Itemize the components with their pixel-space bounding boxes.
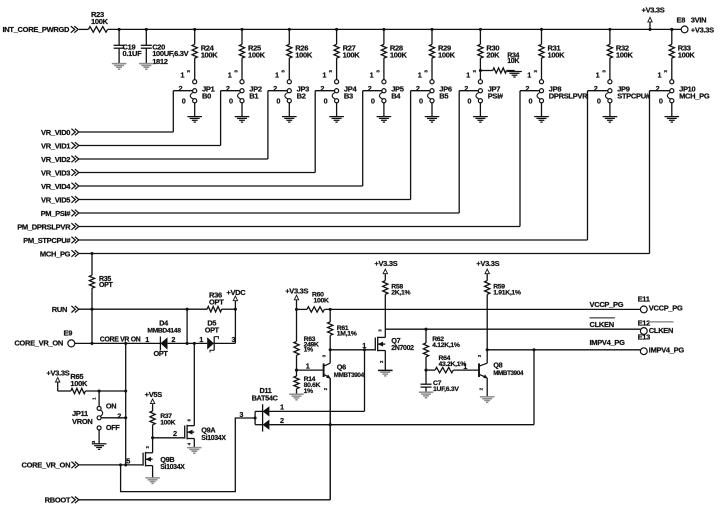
resistor R59 [485,281,521,350]
wire JP9 pin2 to PM_STPCPU# [79,91,608,240]
jumper JP4 B3 [320,70,357,117]
wire Q7 gate [330,341,374,350]
ground JP6 [425,117,440,123]
transistor Q7 2N7002 [375,329,415,371]
svg-text:Q9B: Q9B [160,455,174,464]
svg-text:100K: 100K [160,420,175,427]
resistor R25 [239,29,265,79]
transistor Q9A Si1034X [185,343,227,447]
node bus junction R25 [240,28,243,31]
svg-text:1UF,6.3V: 1UF,6.3V [433,386,459,393]
node bus junction R28 [382,28,385,31]
jumper JP2 B1 [226,70,262,117]
wire RUN line [79,308,207,310]
node bus junction R29 [430,28,433,31]
node R63 R14 Q6 junction [295,369,298,372]
svg-text:IMPV4_PG: IMPV4_PG [590,338,626,347]
resistor R26 [287,29,313,79]
svg-text:2K,1%: 2K,1% [391,289,410,296]
resistor R63 [294,309,319,370]
resistor R35 [89,254,113,310]
wire D4 to D5 [168,342,208,344]
wire E9 row to CORE_VR_ON lower [125,343,127,465]
capacitor C19 [114,29,143,63]
svg-text:100K: 100K [390,51,408,60]
svg-text:+V3.3S: +V3.3S [46,368,69,377]
power +V3.3S JP11 [46,368,69,391]
svg-text:0.1UF: 0.1UF [123,49,143,58]
wire JP2 pin2 to VR_VID1 [79,91,240,146]
node R62 top junction [424,328,427,331]
ground Q9A [187,448,202,454]
ground JP5 [377,117,392,123]
node E9 row R35 junction [90,342,93,345]
resistor R60 [297,292,329,313]
wire JP1 pin2 to VR_VID0 [79,91,193,132]
svg-text:1: 1 [370,71,374,80]
svg-text:2: 2 [226,84,230,93]
resistor R64 [426,355,479,373]
jumper JP11 VRON [72,401,127,443]
resistor R27 [334,29,360,79]
net label CORE VR ON [100,336,141,343]
ground R14 [289,394,304,400]
resistor R58 [383,281,411,330]
ground JP11 [92,444,107,450]
resistor R32 [607,29,633,79]
svg-text:RBOOT: RBOOT [45,496,71,505]
node bus junction R27 [335,28,338,31]
svg-text:IMPV4_PG: IMPV4_PG [649,345,685,354]
svg-text:MCH_PG: MCH_PG [40,249,71,258]
svg-text:MMBT3904: MMBT3904 [493,370,524,377]
ground R34 [507,71,522,78]
svg-text:100K: 100K [248,51,266,60]
connector VR_VID0 [41,128,79,137]
power +V3.3S R60 [285,286,308,309]
svg-text:2: 2 [525,84,529,93]
svg-text:1%: 1% [304,388,313,395]
node RUN R35 junction [90,308,93,311]
resistor R14 [294,370,321,395]
svg-text:VR_VID1: VR_VID1 [41,141,70,150]
svg-text:4.12K,1%: 4.12K,1% [432,342,460,349]
svg-text:Q9A: Q9A [201,426,216,435]
svg-text:1: 1 [466,71,470,80]
wire JP4 pin2 to VR_VID3 [79,91,335,173]
wire R37 to Q9A gate [153,429,185,438]
ground Q8 [480,397,495,403]
wire pin2 to IMPV4 node [533,350,535,425]
svg-text:100K: 100K [201,51,219,60]
wire CORE_VR_ON row [75,342,161,344]
capacitor C7 [421,370,460,393]
jumper JP8 DPRSLPVR [525,70,588,117]
svg-text:VRON: VRON [72,417,92,426]
svg-text:0: 0 [529,97,533,106]
svg-text:2: 2 [320,84,324,93]
jumper JP5 B4 [368,70,404,117]
node R60 left junction [295,308,298,311]
svg-text:B3: B3 [344,91,353,100]
svg-text:Q8: Q8 [493,361,502,370]
node R62 R64 C7 junction [424,369,427,372]
node bus junction R26 [288,28,291,31]
svg-text:0: 0 [467,97,471,106]
transistor Q8 MMBT3904 [477,350,524,397]
svg-text:E13: E13 [638,332,651,341]
wire JP5 pin2 to VR_VID4 [79,91,382,186]
jumper JP7 PSI# [464,70,504,117]
power +V3.3S R58 [374,259,397,281]
jumper JP9 STPCPU# [594,70,651,117]
svg-text:1M,1%: 1M,1% [337,331,357,338]
svg-text:+V3.3S: +V3.3S [374,259,397,268]
svg-text:OPT: OPT [99,282,114,289]
svg-text:+V3.3S: +V3.3S [476,259,499,268]
node bus junction R30 [479,28,482,31]
ground C20 [139,64,154,70]
svg-text:VR_VID5: VR_VID5 [41,195,70,204]
svg-text:2: 2 [416,84,420,93]
svg-text:2: 2 [117,411,121,420]
svg-text:0: 0 [597,97,601,106]
wire Q7 drain [378,329,386,337]
ground Q7 [378,370,393,376]
svg-text:2: 2 [368,84,372,93]
resistor R24 [192,29,218,79]
connector PM_PSI# [41,209,79,218]
node bus junction R33 [670,28,673,31]
svg-text:43.2K,1%: 43.2K,1% [439,361,467,368]
svg-text:STPCPU#: STPCPU# [617,91,651,100]
svg-text:Si1034X: Si1034X [160,464,185,471]
svg-text:3: 3 [239,410,243,419]
transistor Q9B Si1034X [143,446,185,478]
wire VCCP_PG line [324,308,640,310]
node JP7 pin1 junction [479,69,482,72]
resistor R36 [207,290,235,312]
svg-text:VR_VID4: VR_VID4 [41,182,71,191]
connector VR_VID2 [41,155,79,164]
svg-text:0: 0 [371,97,375,106]
ground JP9 [603,117,618,123]
svg-text:CLKEN: CLKEN [649,326,673,335]
svg-text:MMBD4148: MMBD4148 [147,328,181,335]
connector PM_STPCPU# [23,236,79,245]
ground JP10 [665,117,680,123]
connector E11 VCCP_PG [638,294,683,313]
node IMPV4 pin2 vertical junction [532,348,535,351]
connector E9 CORE_VR_ON [14,329,74,348]
svg-text:INT_CORE_PWRGD: INT_CORE_PWRGD [3,25,71,34]
wire RBOOT row [79,378,330,500]
svg-text:100K: 100K [678,51,696,60]
svg-text:+V3.3S: +V3.3S [641,6,664,15]
svg-text:2: 2 [656,84,660,93]
svg-text:Si1034X: Si1034X [201,435,226,442]
node bus junction R24 [193,28,196,31]
svg-text:+V5S: +V5S [145,390,163,399]
svg-text:B0: B0 [202,91,211,100]
connector E8 3VIN +V3.3S [670,16,714,35]
svg-text:CLKEN: CLKEN [590,320,614,329]
wire R35 to CORE_VR_ON [91,309,93,343]
svg-text:VCCP_PG: VCCP_PG [649,304,683,313]
node bus junction C19 [118,28,121,31]
svg-text:0: 0 [659,97,663,106]
jumper JP1 B0 [179,70,215,117]
svg-text:OFF: OFF [106,423,121,432]
svg-text:BAT54C: BAT54C [252,393,279,402]
svg-text:2: 2 [594,84,598,93]
svg-text:1: 1 [275,71,279,80]
svg-text:PM_DPRSLPVR: PM_DPRSLPVR [17,222,71,231]
diode D11 BAT54C [239,386,284,432]
svg-text:1: 1 [180,71,184,80]
svg-text:2N7002: 2N7002 [391,345,414,352]
svg-text:0: 0 [182,97,186,106]
net label VCCP_PG left [590,300,624,309]
wire D5 to +VDC corner [214,309,235,343]
svg-text:B2: B2 [297,91,306,100]
svg-text:OPT: OPT [205,326,220,335]
wire JP8 pin2 to PM_DPRSLPVR [79,91,540,227]
node D4 RUN vertical junction [186,342,189,345]
node R65 JP11 pin1 junction [98,389,101,392]
svg-text:2: 2 [171,335,175,344]
connector RUN [52,305,79,314]
svg-text:100K: 100K [70,379,88,388]
resistor R30 [478,29,500,79]
svg-text:VR_VID3: VR_VID3 [41,168,70,177]
node R59 IMPV junction [486,348,489,351]
svg-text:+V3.3S: +V3.3S [285,286,308,295]
node RUN D4 junction [186,308,189,311]
svg-text:MCH_PG: MCH_PG [679,91,710,100]
node R65 vertical junction [124,389,127,392]
ground JP2 [235,117,250,123]
node CORE_VR_ON D11 branch [119,463,122,466]
svg-text:100K: 100K [295,51,313,60]
svg-text:20K: 20K [486,51,500,60]
connector RBOOT [45,496,79,505]
svg-text:2: 2 [179,84,183,93]
svg-text:2: 2 [464,84,468,93]
svg-text:OPT: OPT [153,349,168,358]
wire Q9B drain [152,438,154,453]
wire main bus [108,28,682,30]
svg-text:2: 2 [173,429,177,438]
resistor R34 [480,52,519,73]
svg-text:VCCP_PG: VCCP_PG [590,300,624,309]
wire CORE_VR_ON lower row [79,456,143,465]
capacitor C20 [141,29,189,66]
node CORE_VR_ON JP11 vertical [124,463,127,466]
svg-text:PM_PSI#: PM_PSI# [41,209,72,218]
svg-text:100K: 100K [314,298,329,305]
node bus junction R31 [540,28,543,31]
svg-text:0: 0 [229,97,233,106]
svg-text:1: 1 [658,71,662,80]
connector INT_CORE_PWRGD [3,25,79,34]
resistor R28 [381,29,407,79]
connector PM_DPRSLPVR [17,222,79,231]
node bus junction R32 [608,28,611,31]
svg-text:0: 0 [276,97,280,106]
svg-text:E8: E8 [677,16,686,25]
ground JP1 [187,117,202,123]
node D11 pin2 RBOOT junction [329,423,332,426]
svg-text:MMBT3904: MMBT3904 [334,372,365,379]
wire JP6 pin2 to VR_VID5 [79,91,430,200]
node E9 row JP11 branch [124,342,127,345]
net label IMPV4_PG left [590,338,626,347]
svg-text:+VDC: +VDC [226,288,246,297]
svg-text:Q6: Q6 [337,363,346,372]
svg-text:1: 1 [199,335,203,344]
node R61 bottom junction [329,348,332,351]
ground JP8 [534,117,549,123]
wire CLKEN line [385,328,640,330]
svg-text:PM_STPCPU#: PM_STPCPU# [23,236,71,245]
wire JP11 pin1 stub [92,391,100,406]
svg-text:1: 1 [322,71,326,80]
svg-text:VR_VID2: VR_VID2 [41,155,70,164]
svg-text:OPT: OPT [209,297,224,306]
svg-text:CORE_VR_ON: CORE_VR_ON [14,338,63,347]
svg-text:100K: 100K [91,17,109,26]
wire RUN to D4 node [186,309,188,343]
svg-text:1: 1 [306,362,310,371]
net label CLKEN left [590,318,615,329]
node D5 Q9A drain junction [193,342,196,345]
svg-text:2: 2 [273,84,277,93]
svg-text:D4: D4 [159,319,169,328]
svg-text:100K: 100K [438,51,456,60]
connector VR_VID4 [41,182,79,191]
connector E13 IMPV4_PG [638,332,685,354]
svg-text:1: 1 [463,362,467,371]
svg-text:100K: 100K [616,51,634,60]
node D11 pin1 gate junction [363,348,366,351]
svg-text:0: 0 [419,97,423,106]
svg-text:VR_VID0: VR_VID0 [41,128,70,137]
wire D11 pin3 path [121,418,256,492]
node bus junction C20 [145,28,148,31]
svg-text:CORE_VR_ON: CORE_VR_ON [22,461,71,470]
svg-text:2: 2 [280,416,284,425]
connector VR_VID3 [41,168,79,177]
resistor R31 [539,29,565,79]
connector MCH_PG [40,249,79,258]
ground C19 [112,64,127,70]
diode D4 MMBD4148 [145,319,181,358]
power +V3.3S top [641,6,664,31]
svg-text:B1: B1 [249,91,258,100]
wire D11 pin2 line [269,424,534,426]
resistor R33 [669,29,695,79]
wire IMPV4_PG line [487,349,640,351]
svg-text:100K: 100K [343,51,361,60]
svg-text:E9: E9 [64,329,73,338]
jumper JP10 MCH_PG [656,70,710,117]
svg-text:1: 1 [596,71,600,80]
resistor R61 [328,309,357,349]
connector E12 CLKEN [638,318,674,335]
svg-text:RUN: RUN [52,305,67,314]
transistor Q6 MMBT3904 [297,350,365,500]
ground JP4 [329,117,344,123]
resistor R23 [79,10,109,32]
node R37 Q9 junction [151,436,154,439]
svg-text:1.91K,1%: 1.91K,1% [493,289,521,296]
wire JP10 pin2 to MCH_PG [79,91,670,254]
svg-text:10K: 10K [507,58,519,65]
ground Q9B [145,478,160,484]
node R61 top junction [329,308,332,311]
svg-text:1: 1 [418,71,422,80]
connector VR_VID1 [41,141,79,150]
svg-text:E11: E11 [638,294,650,303]
svg-text:DPRSLPVR: DPRSLPVR [549,91,588,100]
connector CORE_VR_ON lower [22,461,79,470]
svg-text:+V3.3S: +V3.3S [691,25,714,34]
connector VR_VID5 [41,195,79,204]
resistor R62 [423,329,460,370]
svg-text:B4: B4 [391,91,401,100]
power +VDC [226,288,246,311]
svg-text:1812: 1812 [152,57,168,66]
svg-text:Q7: Q7 [391,336,400,345]
ground JP3 [282,117,297,123]
svg-text:1: 1 [145,335,149,344]
svg-text:1%: 1% [304,347,313,354]
svg-text:3VIN: 3VIN [691,16,706,25]
jumper JP6 B5 [416,70,452,117]
svg-text:0: 0 [324,97,328,106]
svg-text:CORE VR ON: CORE VR ON [100,336,141,343]
svg-text:B5: B5 [439,91,448,100]
svg-text:1: 1 [280,403,284,412]
diode D5 OPT [199,319,235,353]
svg-text:1: 1 [527,71,531,80]
jumper JP3 B2 [273,70,309,117]
resistor R37 [150,404,176,438]
power +V3.3S R59 [476,259,499,281]
resistor R65 [58,372,126,394]
node MCH_PG R35 junction [90,252,93,255]
svg-text:100K: 100K [548,51,566,60]
wire JP3 pin2 to VR_VID2 [79,91,287,159]
wire D11 pin1 to Q7 gate node [269,350,364,412]
ground JP7 [473,117,488,123]
svg-text:ON: ON [106,401,116,410]
svg-text:PSI#: PSI# [488,91,504,100]
ground C7 [419,392,434,398]
svg-text:1: 1 [228,71,232,80]
power +V5S [145,390,163,404]
resistor R29 [429,29,455,79]
wire JP7 pin2 to PM_PSI# [79,91,478,213]
